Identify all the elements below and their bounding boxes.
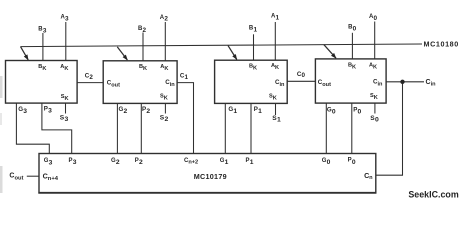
wire C2 (U2 Cout to U1) <box>77 73 103 83</box>
wire P1 (U3 to U5) <box>251 103 262 153</box>
junction node Cin <box>400 80 404 84</box>
wire G2 (U2 to U5) <box>117 103 127 153</box>
input A1 <box>271 14 280 61</box>
callout arrow to U2 <box>117 47 127 60</box>
input A2 <box>160 15 169 61</box>
input A0 <box>369 14 378 59</box>
callout arrow to U1 <box>21 47 29 60</box>
svg-text:MC10179: MC10179 <box>194 172 227 181</box>
net Cin (external carry in) <box>376 79 436 175</box>
wire G0 (U4 to U5) <box>326 103 336 153</box>
wire P3 (U1 to U5) <box>42 103 72 153</box>
input B2 <box>138 26 147 61</box>
adder block U4 MC10180 (bit 0) <box>315 59 386 103</box>
wire P0 (U4 to U5) <box>352 103 362 153</box>
wire G3 (U1 to U5) <box>16 103 49 153</box>
input B3 <box>38 27 47 61</box>
svg-text:MC10180: MC10180 <box>424 40 459 49</box>
adder block U3 MC10180 (bit 1) <box>215 60 288 103</box>
adder block U1 MC10180 (bit 3) <box>6 61 78 104</box>
svg-text:SeekIC.com: SeekIC.com <box>408 190 458 200</box>
carry lookahead block U5 MC10179 <box>38 154 376 193</box>
wire C1 (U2 Cin down to U5 Cn+2) <box>177 72 193 153</box>
callout arrow to U4 <box>324 44 336 58</box>
input B0 <box>348 25 357 59</box>
callout line MC10180 <box>21 40 459 49</box>
input B1 <box>249 26 258 61</box>
input A3 <box>61 15 70 61</box>
output Cout (external carry out) <box>9 172 39 181</box>
output stub S3 <box>60 103 69 123</box>
callout arrow to U3 <box>228 46 237 60</box>
adder block U2 MC10180 (bit 2) <box>103 61 177 104</box>
output stub S0 <box>370 103 379 123</box>
wire C0 (U3 Cin to U4 Cout) <box>287 71 315 82</box>
output stub S1 <box>272 103 281 123</box>
output stub S2 <box>160 103 169 122</box>
wire G1 (U3 to U5) <box>225 103 237 153</box>
wire P2 (U2 to U5) <box>141 103 150 153</box>
scan artifact left edge <box>0 76 3 193</box>
